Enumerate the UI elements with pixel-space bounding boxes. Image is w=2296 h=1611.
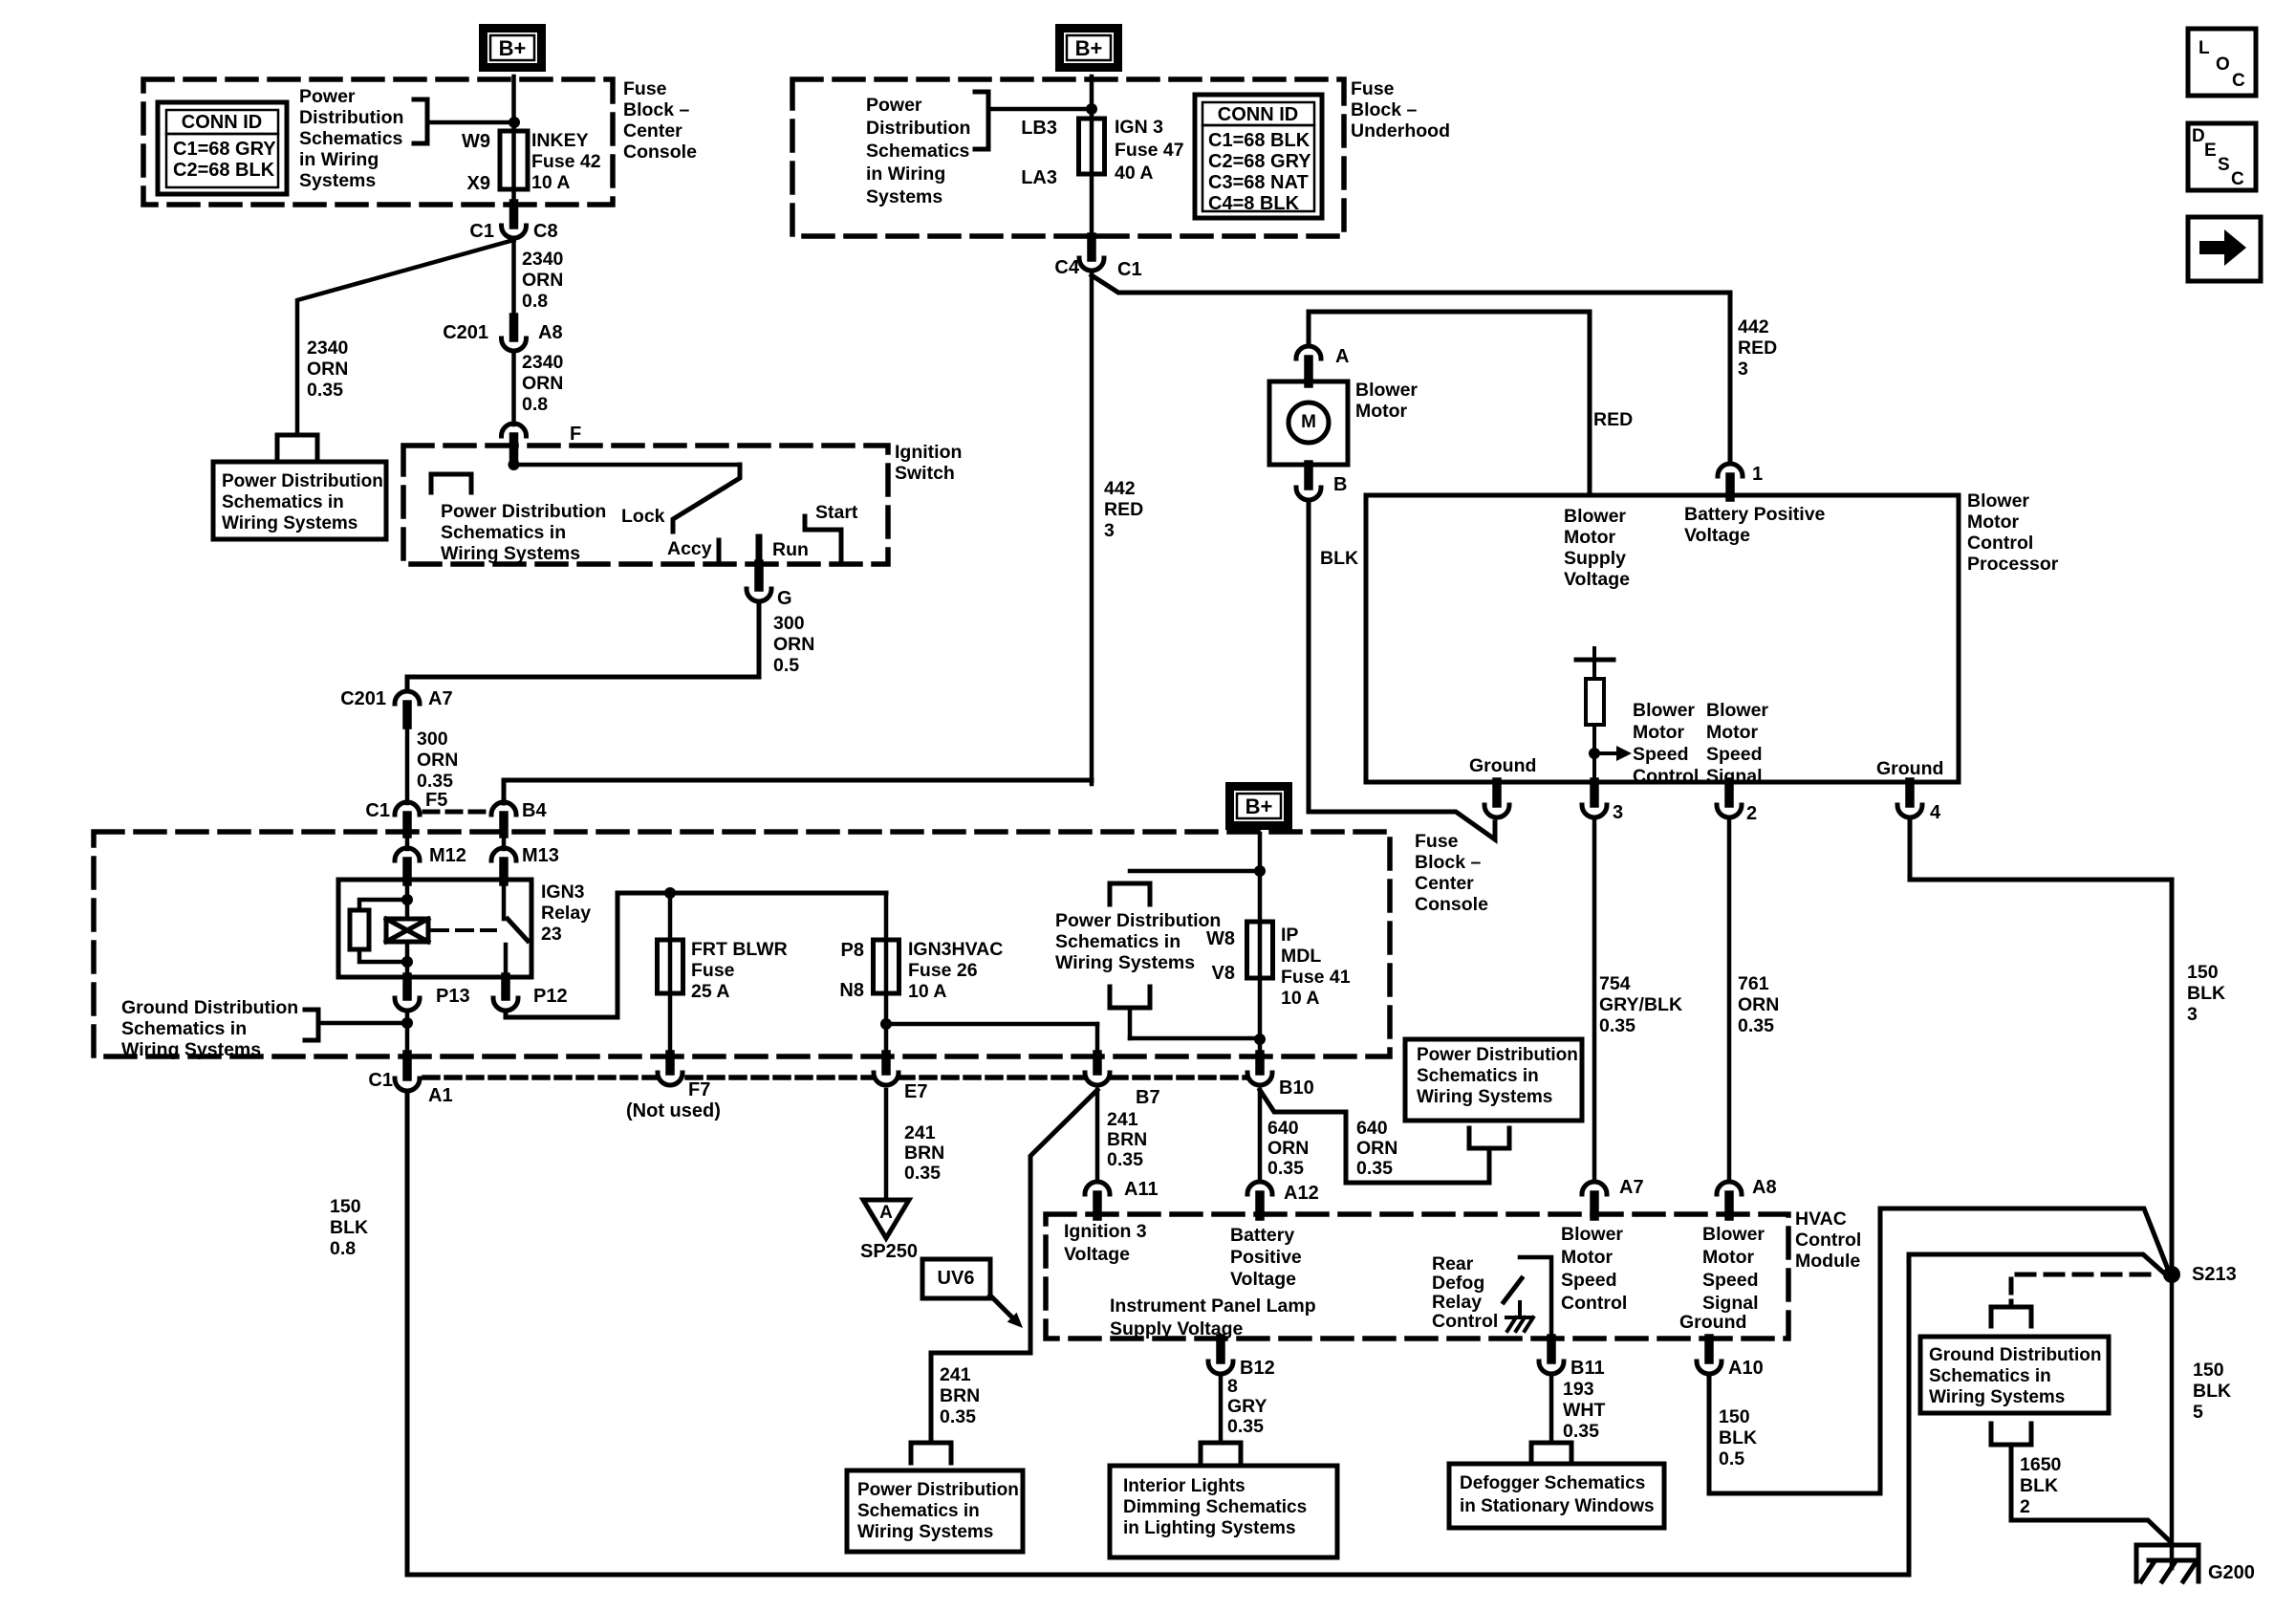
svg-text:RED: RED [1738,337,1777,359]
svg-text:ORN: ORN [417,750,458,771]
svg-text:Console: Console [1415,894,1488,915]
switch lever toward Lock/Accy [673,465,740,532]
splice S213 [2163,1266,2180,1283]
svg-text:Blower: Blower [1355,380,1418,401]
svg-text:0.5: 0.5 [773,655,799,676]
svg-text:Blower: Blower [1561,1224,1623,1245]
svg-text:5: 5 [2193,1402,2203,1423]
svg-text:0.35: 0.35 [1356,1158,1393,1179]
reference box Power Distribution Schematics in Wiring Systems (left) [213,462,386,539]
svg-text:C8: C8 [533,221,558,242]
svg-text:Schematics in: Schematics in [1417,1066,1539,1086]
svg-text:Motor: Motor [1355,401,1408,422]
svg-text:Systems: Systems [866,186,942,207]
svg-text:F: F [570,424,581,445]
svg-text:Schematics: Schematics [866,141,970,162]
svg-text:Systems: Systems [299,170,376,191]
svg-text:W8: W8 [1206,928,1235,949]
wire B10 branch to power distribution note (640 ORN) [1260,1090,1489,1183]
wire 442 RED feed to B4 [504,780,1092,803]
svg-text:Motor: Motor [1564,527,1616,548]
svg-text:Instrument Panel Lamp: Instrument Panel Lamp [1110,1295,1316,1317]
power symbol B+ (fuse block center console feed) [484,29,542,68]
svg-text:150: 150 [1719,1406,1750,1427]
processor speed control resistor [1592,648,1596,679]
svg-text:1: 1 [1752,464,1763,485]
svg-text:Battery: Battery [1230,1225,1294,1246]
svg-text:in Stationary Windows: in Stationary Windows [1460,1496,1655,1516]
svg-text:Switch: Switch [895,463,955,484]
svg-text:3: 3 [2187,1004,2198,1025]
svg-text:Blower: Blower [1702,1224,1765,1245]
svg-text:Schematics: Schematics [299,128,403,149]
svg-text:Control: Control [1795,1230,1861,1251]
svg-text:Signal: Signal [1702,1293,1759,1314]
relay IGN3 Relay 23 box [338,880,531,977]
svg-text:A7: A7 [428,688,453,709]
ignition switch dashed box [403,446,888,564]
svg-text:0.8: 0.8 [522,394,548,415]
wire S213 to G200 [2170,1283,2175,1568]
svg-text:0.8: 0.8 [330,1238,356,1259]
svg-text:Defogger Schematics: Defogger Schematics [1460,1473,1645,1493]
svg-text:C2=68 GRY: C2=68 GRY [1208,151,1311,172]
bracket into power distribution box [277,435,317,457]
svg-text:in Lighting Systems: in Lighting Systems [1123,1518,1296,1538]
svg-text:M: M [1301,412,1316,432]
bracket ground distribution note [305,1010,318,1040]
svg-text:C4=8 BLK: C4=8 BLK [1208,193,1300,214]
svg-text:Wiring Systems: Wiring Systems [222,513,357,533]
svg-text:Voltage: Voltage [1230,1269,1296,1290]
connector C1/A1 [402,1055,412,1077]
wire pin 3 to HVAC A7 (754 GRY/BLK) [1592,821,1597,1182]
svg-text:10 A: 10 A [1281,988,1319,1009]
svg-text:Positive: Positive [1230,1247,1302,1268]
svg-text:V8: V8 [1212,963,1235,984]
svg-text:B+: B+ [1245,795,1273,818]
svg-text:Run: Run [772,539,809,560]
fuse block center console dashed box [143,79,613,205]
bracket interior lights [1201,1443,1241,1463]
wire B7 branch to power distribution (241 BRN) [931,1090,1097,1441]
svg-text:G200: G200 [2208,1562,2255,1583]
wire E7 to SP250 [884,1090,889,1200]
svg-text:Power Distribution: Power Distribution [1055,910,1221,931]
svg-text:Relay: Relay [1432,1292,1482,1313]
connector B7 [1093,1055,1102,1071]
svg-text:LA3: LA3 [1021,167,1057,188]
svg-text:A: A [879,1203,893,1223]
splice SP250 triangle A [863,1200,909,1238]
bracket below note (fuse block 3) [1110,987,1150,1008]
connector processor pin 3 [1590,782,1599,803]
wire IGN3HVAC fuse to E7/B7 [880,1018,892,1030]
connector G below ignition switch [754,564,764,587]
reference box Ground Distribution Schematics (right) [1920,1337,2109,1413]
svg-text:M12: M12 [429,845,466,866]
svg-text:P8: P8 [841,940,864,961]
svg-text:Motor: Motor [1706,722,1759,743]
svg-text:Fuse: Fuse [1351,78,1395,99]
svg-text:BLK: BLK [2187,983,2225,1004]
wire 442 RED 3 main drop [1090,272,1094,784]
svg-text:X9: X9 [467,173,490,194]
start contact [805,516,841,562]
svg-text:10 A: 10 A [908,981,946,1002]
svg-text:150: 150 [2187,962,2219,983]
svg-text:B4: B4 [522,800,547,821]
fuse IP MDL Fuse 41 10A [1247,922,1273,978]
svg-text:M13: M13 [522,845,559,866]
svg-text:BLK: BLK [1320,548,1358,569]
svg-text:ORN: ORN [307,359,348,380]
svg-text:Wiring Systems: Wiring Systems [1929,1387,2065,1407]
connector F (ignition switch) [502,424,527,436]
connector P13 [402,977,412,996]
bracket to power distribution note (fuse block 3) [1130,869,1260,874]
reference box Interior Lights Dimming Schematics [1110,1466,1337,1557]
svg-text:3: 3 [1738,359,1748,380]
connector processor pin 1 [1718,464,1743,476]
svg-text:C: C [2231,169,2244,189]
svg-text:0.35: 0.35 [417,771,453,792]
accy contact tick [717,540,722,559]
connector M13 [502,834,507,849]
wire to IGN3HVAC fuse [884,893,889,1056]
svg-text:B11: B11 [1570,1358,1605,1379]
wire BLK blower motor ground [1309,504,1495,839]
svg-text:A1: A1 [428,1085,453,1106]
svg-text:A7: A7 [1619,1177,1644,1198]
svg-text:Ignition: Ignition [895,442,962,463]
svg-text:Fuse: Fuse [623,78,667,99]
svg-text:Power Distribution: Power Distribution [857,1480,1019,1500]
dashed connector jumper F5-B4 [424,810,486,815]
svg-text:B10: B10 [1279,1078,1314,1099]
junction node FRT BLWR fuse [664,887,676,899]
svg-text:ORN: ORN [522,270,563,291]
svg-text:Center: Center [1415,873,1474,894]
svg-text:B12: B12 [1240,1358,1275,1379]
svg-text:Block –: Block – [1351,99,1418,120]
bracket below power distribution box (right) [1469,1128,1509,1148]
fuse block center console dashed box (relay/fuses) [94,832,1390,1056]
dotted connector row line [424,1075,657,1080]
fuse IGN 3 Fuse 47 40A [1079,119,1105,174]
svg-text:Voltage: Voltage [1684,525,1750,546]
connector C201/A8 [509,317,519,337]
svg-text:Block –: Block – [623,99,690,120]
svg-text:0.35: 0.35 [1563,1421,1599,1442]
bracket to power distribution note (underhood) [988,107,1092,112]
reference box Power Distribution Schematics in Wiring Systems (bottom) [847,1470,1023,1552]
svg-text:Ground: Ground [1876,758,1943,779]
svg-text:2340: 2340 [522,352,564,373]
svg-text:BRN: BRN [904,1143,944,1164]
wire switch common feed [514,463,741,468]
connector C1/F5 [395,802,420,815]
blower motor box [1269,381,1348,465]
svg-text:0.35: 0.35 [1738,1015,1774,1036]
relay suppression resistor branch [359,900,407,910]
svg-text:MDL: MDL [1281,946,1321,967]
wire to FRT BLWR fuse [668,893,673,1056]
svg-text:754: 754 [1599,973,1631,994]
junction node on B+ feed [509,117,520,128]
wire B12 to interior lights box (8 GRY) [1219,1378,1224,1441]
wire A1 ground run 150 BLK 0.8 [407,1095,2169,1575]
svg-text:Fuse 41: Fuse 41 [1281,967,1351,988]
blower motor circle M [1289,403,1329,443]
UV6 arrow [990,1295,1012,1317]
svg-text:0.35: 0.35 [1107,1149,1143,1170]
connector B4 [491,802,516,815]
svg-text:C4: C4 [1054,257,1079,278]
svg-text:Schematics in: Schematics in [441,522,566,543]
svg-text:Power: Power [866,95,922,116]
svg-text:HVAC: HVAC [1795,1208,1847,1230]
svg-text:C1: C1 [368,1070,393,1091]
svg-text:Wiring Systems: Wiring Systems [1055,952,1195,973]
wire B+ to IGN3 fuse [1090,76,1094,238]
connector processor ground pin [1492,782,1502,803]
svg-text:G: G [777,588,792,609]
svg-text:2: 2 [2020,1496,2030,1517]
svg-text:8: 8 [1227,1376,1238,1397]
svg-text:A12: A12 [1284,1183,1319,1204]
svg-text:C1: C1 [365,800,390,821]
svg-text:B: B [1333,474,1347,495]
svg-text:IGN3: IGN3 [541,882,585,903]
svg-text:Distribution: Distribution [299,107,403,128]
svg-text:in Wiring: in Wiring [299,149,379,170]
svg-text:BRN: BRN [940,1385,980,1406]
svg-text:F7: F7 [688,1079,710,1100]
svg-text:A: A [1335,346,1349,367]
svg-text:Control: Control [1633,766,1699,787]
svg-text:Underhood: Underhood [1351,120,1450,142]
svg-text:10 A: 10 A [531,172,570,193]
legend box DESC [2188,123,2256,190]
wire G to C201/A7 [407,604,759,691]
svg-text:E: E [2204,141,2217,161]
svg-text:2340: 2340 [307,337,349,359]
blower motor control processor box [1366,495,1959,782]
svg-text:0.35: 0.35 [307,380,343,401]
connector A10 [1704,1339,1714,1360]
svg-text:Module: Module [1795,1251,1860,1272]
svg-text:P13: P13 [436,986,470,1007]
svg-text:761: 761 [1738,973,1769,994]
svg-text:Defog: Defog [1432,1273,1484,1294]
svg-text:ORN: ORN [522,373,563,394]
wire A7 down to C1/F5 [405,725,410,803]
svg-text:N8: N8 [839,980,864,1001]
relay switch arm [508,919,528,941]
svg-text:Control: Control [1432,1311,1498,1332]
connector E7 [881,1055,891,1071]
connector A11 [1085,1182,1110,1194]
svg-text:Blower: Blower [1633,700,1695,721]
svg-text:RED: RED [1104,499,1143,520]
svg-text:Motor: Motor [1967,512,2020,533]
bracket to power distribution note 1 [414,99,427,143]
svg-text:IGN3HVAC: IGN3HVAC [908,939,1003,960]
svg-text:Motor: Motor [1561,1247,1614,1268]
svg-text:in Wiring: in Wiring [866,163,945,185]
svg-text:1650: 1650 [2020,1454,2062,1475]
svg-text:Schematics in: Schematics in [222,492,344,512]
svg-text:C1=68 GRY: C1=68 GRY [173,139,276,160]
svg-text:150: 150 [330,1196,361,1217]
reference box Power Distribution Schematics in Wiring Systems (right) [1405,1039,1582,1121]
bracket to power distribution note (ignition switch) [431,474,471,492]
svg-text:Console: Console [623,142,697,163]
svg-text:FRT BLWR: FRT BLWR [691,939,788,960]
CONN ID table (center console) [158,102,287,194]
svg-text:Relay: Relay [541,903,591,924]
svg-text:Wiring Systems: Wiring Systems [857,1522,993,1542]
svg-text:Blower: Blower [1564,506,1626,527]
svg-text:Fuse: Fuse [1415,831,1459,852]
svg-text:Control: Control [1967,533,2033,554]
relay coil wire [405,880,410,919]
svg-text:193: 193 [1563,1379,1594,1400]
wire B+ to IP MDL fuse [1258,834,1263,1056]
svg-text:Fuse 26: Fuse 26 [908,960,978,981]
svg-text:Wiring Systems: Wiring Systems [441,543,580,564]
svg-text:E7: E7 [904,1081,927,1102]
connector B12 [1216,1339,1225,1360]
svg-text:LB3: LB3 [1021,118,1057,139]
svg-text:Battery Positive: Battery Positive [1684,504,1826,525]
svg-text:CONN ID: CONN ID [1218,104,1298,125]
svg-text:IP: IP [1281,925,1298,946]
svg-text:P12: P12 [533,986,568,1007]
svg-text:Power Distribution: Power Distribution [1417,1045,1578,1065]
svg-text:300: 300 [417,729,448,750]
connector blower motor pin B [1304,465,1313,486]
connector B10 [1255,1055,1265,1071]
option label UV6 box [922,1259,990,1298]
svg-text:S: S [2218,155,2230,175]
svg-text:Motor: Motor [1702,1247,1755,1268]
svg-text:0.35: 0.35 [1267,1158,1304,1179]
svg-text:C1: C1 [469,221,494,242]
svg-text:Motor: Motor [1633,722,1685,743]
svg-text:Schematics in: Schematics in [121,1018,247,1039]
svg-text:0.35: 0.35 [1599,1015,1635,1036]
legend arrow box [2188,217,2261,281]
svg-text:Ground: Ground [1679,1312,1746,1333]
svg-text:A10: A10 [1728,1358,1764,1379]
svg-text:0.35: 0.35 [904,1163,941,1184]
wire 1650 BLK 2 to G200 [2011,1445,2169,1540]
svg-text:GRY/BLK: GRY/BLK [1599,994,1682,1015]
svg-text:Ground Distribution: Ground Distribution [1929,1345,2101,1365]
svg-text:Interior Lights: Interior Lights [1123,1476,1245,1496]
svg-text:C: C [2232,71,2245,91]
svg-text:Processor: Processor [1967,554,2059,575]
junction node switch common [509,459,520,470]
wire C8 down to C201/A8 [511,239,516,319]
svg-text:0.35: 0.35 [940,1406,976,1427]
svg-text:Start: Start [815,502,858,523]
wire A10 ground to S213 (150 BLK 0.5) [1709,1208,2169,1493]
svg-text:C3=68 NAT: C3=68 NAT [1208,172,1309,193]
fuse block underhood dashed box [792,79,1344,236]
svg-text:RED: RED [1593,409,1633,430]
fuse IGN3HVAC Fuse 26 10A [874,940,899,993]
connector A8 (HVAC) [1717,1182,1742,1194]
svg-text:442: 442 [1738,316,1769,337]
svg-text:BLK: BLK [1719,1427,1757,1448]
svg-text:ORN: ORN [773,634,814,655]
svg-text:Power Distribution: Power Distribution [441,501,606,522]
svg-text:W9: W9 [462,131,490,152]
svg-text:C1: C1 [1117,259,1142,280]
branch wire to power distribution (2340 ORN 0.35) [297,240,514,433]
svg-text:Speed: Speed [1702,1270,1759,1291]
connector C1/C8 [509,204,519,225]
svg-text:640: 640 [1267,1118,1299,1139]
connector B11 [1547,1339,1556,1360]
svg-text:Fuse 42: Fuse 42 [531,151,601,172]
svg-text:Distribution: Distribution [866,118,970,139]
relay switch output [504,945,509,977]
svg-text:B7: B7 [1136,1087,1160,1108]
relay dashed actuation link [432,928,495,932]
svg-text:Lock: Lock [621,506,665,527]
svg-text:ORN: ORN [1356,1138,1397,1159]
wire blower motor supply RED [1309,312,1590,495]
CONN ID table (underhood) [1195,95,1322,218]
power symbol B+ (IP MDL feed) [1230,787,1289,826]
wire A8 down to ignition switch pin F [511,353,516,425]
svg-text:Center: Center [623,120,682,142]
svg-text:Schematics in: Schematics in [1929,1366,2051,1386]
connector blower motor pin A [1296,346,1321,359]
svg-text:B+: B+ [1075,36,1103,60]
svg-text:2: 2 [1746,803,1757,824]
svg-text:S213: S213 [2192,1264,2237,1285]
svg-text:23: 23 [541,924,562,945]
wire B11 to defogger box (193 WHT) [1549,1378,1554,1441]
svg-text:D: D [2192,126,2205,146]
svg-text:C201: C201 [340,688,386,709]
rear defog relay switch [1520,1257,1551,1339]
wire C1 branch to blower control pin 1 [1092,275,1730,464]
wire into switch common [511,457,516,465]
svg-text:3: 3 [1613,802,1623,823]
svg-text:Supply: Supply [1564,548,1626,569]
bracket defogger [1531,1443,1571,1463]
svg-text:GRY: GRY [1227,1396,1267,1417]
svg-text:O: O [2216,54,2230,75]
power symbol B+ (fuse block underhood) [1060,29,1118,68]
svg-text:150: 150 [2193,1360,2224,1381]
svg-text:0.8: 0.8 [522,291,548,312]
svg-text:SP250: SP250 [860,1241,918,1262]
svg-text:B+: B+ [499,36,527,60]
svg-text:Ignition 3: Ignition 3 [1064,1221,1147,1242]
svg-text:40 A: 40 A [1115,163,1153,184]
svg-text:ORN: ORN [1738,994,1779,1015]
svg-text:ORN: ORN [1267,1138,1309,1159]
svg-text:INKEY: INKEY [531,130,589,151]
svg-text:Control: Control [1561,1293,1627,1314]
